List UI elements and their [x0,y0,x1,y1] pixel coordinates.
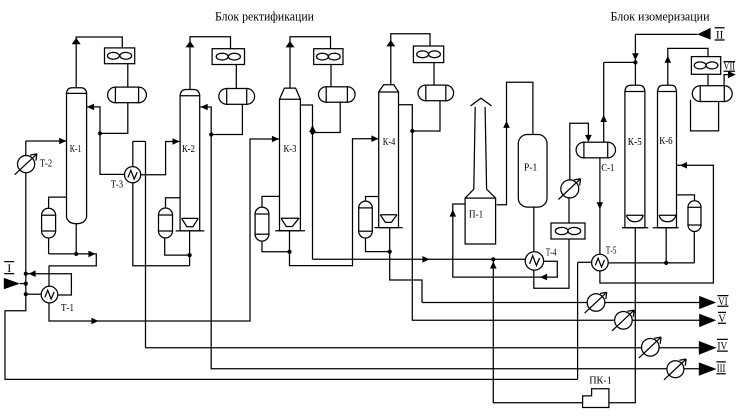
svg-text:Т-5: Т-5 [606,246,617,257]
svg-text:Т-1: Т-1 [61,303,74,314]
svg-text:С-1: С-1 [601,163,614,174]
svg-text:К-1: К-1 [70,144,82,155]
svg-text:К-5: К-5 [628,137,642,148]
svg-text:Р-1: Р-1 [524,163,537,174]
svg-text:П-1: П-1 [469,210,483,221]
svg-text:К-2: К-2 [182,144,195,155]
svg-text:К-6: К-6 [659,136,672,147]
svg-text:ПК-1: ПК-1 [589,375,612,386]
svg-text:К-3: К-3 [284,144,297,155]
svg-text:Блок изомеризации: Блок изомеризации [611,9,710,23]
svg-text:Т-2: Т-2 [40,159,53,170]
svg-text:К-4: К-4 [383,137,396,148]
svg-text:Блок ректификации: Блок ректификации [215,9,314,23]
svg-text:Т-4: Т-4 [546,248,557,259]
svg-text:Т-3: Т-3 [111,180,123,191]
